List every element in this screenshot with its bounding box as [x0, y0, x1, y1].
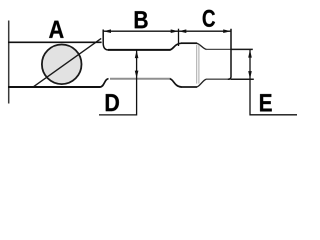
shoulder bottom edge: [181, 86, 197, 88]
ogee waist to shoulder bottom: [170, 79, 182, 87]
stud top edge threaded part with E overshoot: [231, 48, 253, 50]
stud top edge unthreaded part: [206, 48, 231, 50]
shoulder top edge: [181, 42, 197, 44]
stud bottom edge unthreaded part: [206, 78, 231, 80]
label C: [203, 10, 215, 27]
cone projection verticals (gray): [196, 45, 198, 84]
D dimension vertical and leader: [99, 51, 137, 115]
label A: [49, 21, 64, 38]
arrow E up: [248, 50, 252, 58]
ogee waist to shoulder top: [170, 43, 182, 50]
waist top edge: [108, 49, 171, 51]
B C dimension line: [103, 30, 231, 32]
label D: [106, 94, 119, 111]
label E: [260, 94, 272, 111]
shared extension line at B/C: [178, 29, 180, 46]
block bottom edge: [8, 86, 101, 88]
wall line (left mounting surface): [8, 21, 10, 104]
arrow B right: [171, 29, 179, 33]
block top edge: [8, 41, 102, 43]
hole circle: [42, 45, 82, 85]
diagonal diameter line: [33, 38, 101, 87]
waist bottom edge (gray): [110, 78, 171, 80]
arrow E down: [248, 71, 252, 79]
extension line B left with fillet into waist top: [103, 30, 108, 50]
arrow D down: [135, 71, 139, 79]
stud bottom edge threaded part with E overshoot: [231, 78, 254, 80]
arrow C left: [179, 29, 187, 33]
E dimension vertical and leader: [250, 50, 297, 115]
cone top slant: [197, 43, 207, 49]
arrow B left: [103, 29, 111, 33]
arrow C right: [223, 29, 231, 33]
cone bottom slant: [197, 79, 207, 87]
arrow D up: [135, 50, 139, 58]
label B: [135, 11, 148, 28]
bottom ogee block to waist: [100, 79, 109, 87]
thread start / C extension vertical: [228, 29, 231, 80]
